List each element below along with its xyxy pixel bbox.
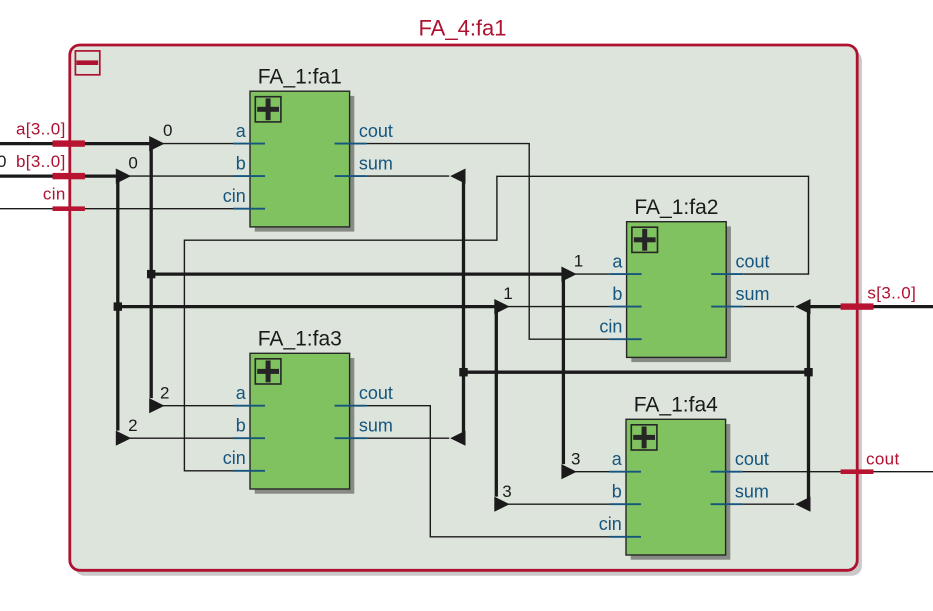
- svg-text:1: 1: [503, 284, 512, 303]
- svg-text:a: a: [236, 383, 247, 403]
- svg-text:cin: cin: [43, 185, 66, 204]
- svg-text:FA_1:fa4: FA_1:fa4: [634, 394, 718, 417]
- svg-text:b[3..0]: b[3..0]: [16, 152, 66, 171]
- svg-text:1: 1: [574, 252, 583, 271]
- svg-text:cin: cin: [223, 186, 246, 206]
- svg-text:sum: sum: [735, 481, 769, 501]
- svg-text:a[3..0]: a[3..0]: [16, 120, 66, 139]
- svg-text:FA_1:fa1: FA_1:fa1: [258, 65, 342, 88]
- svg-text:cout: cout: [866, 449, 900, 468]
- svg-text:FA_4:fa1: FA_4:fa1: [418, 15, 506, 40]
- svg-text:3: 3: [502, 482, 511, 501]
- svg-text:0: 0: [0, 152, 7, 171]
- svg-text:0: 0: [163, 121, 172, 140]
- svg-text:FA_1:fa2: FA_1:fa2: [634, 196, 718, 219]
- svg-text:b: b: [236, 415, 246, 435]
- svg-text:FA_1:fa3: FA_1:fa3: [258, 328, 342, 351]
- svg-text:cin: cin: [223, 448, 246, 468]
- svg-text:a: a: [236, 121, 247, 141]
- svg-text:2: 2: [160, 383, 169, 402]
- svg-text:cout: cout: [359, 383, 393, 403]
- svg-text:a: a: [612, 449, 623, 469]
- svg-text:3: 3: [571, 449, 580, 468]
- svg-text:cout: cout: [735, 449, 769, 469]
- svg-text:cin: cin: [599, 316, 622, 336]
- svg-text:a: a: [612, 251, 623, 271]
- svg-text:2: 2: [128, 416, 137, 435]
- svg-text:sum: sum: [359, 153, 393, 173]
- svg-text:0: 0: [128, 154, 137, 173]
- svg-text:b: b: [612, 481, 622, 501]
- svg-text:sum: sum: [736, 284, 770, 304]
- svg-text:b: b: [236, 153, 246, 173]
- svg-text:cout: cout: [736, 251, 770, 271]
- svg-text:s[3..0]: s[3..0]: [867, 283, 916, 302]
- svg-text:cin: cin: [599, 514, 622, 534]
- svg-text:b: b: [612, 284, 622, 304]
- svg-text:sum: sum: [359, 415, 393, 435]
- svg-text:cout: cout: [359, 121, 393, 141]
